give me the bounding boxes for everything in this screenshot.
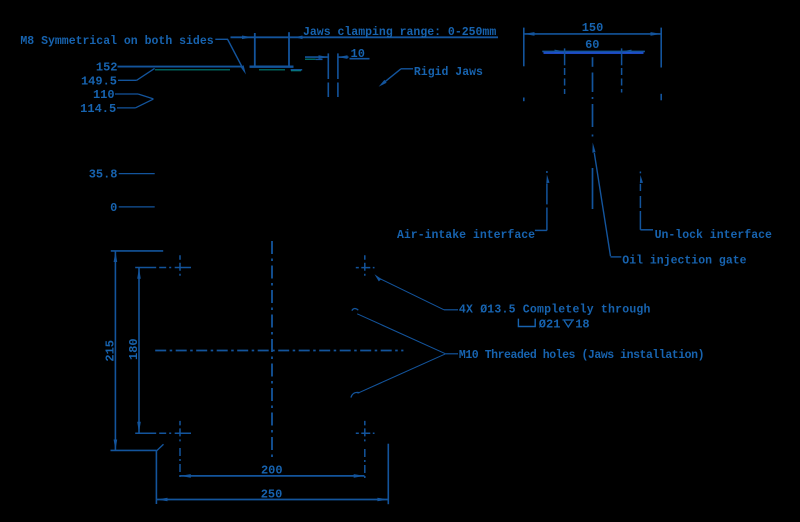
centerline right view: [592, 57, 594, 209]
dim 150 extension left: [523, 28, 525, 102]
dim 215 extension top: [111, 250, 163, 252]
svg-text:Ø21: Ø21: [539, 317, 561, 331]
label 110: [93, 88, 153, 102]
leader M8 note: [215, 39, 246, 74]
label 152: [96, 61, 118, 75]
hole centre cross top-right: [356, 255, 375, 279]
svg-text:114.5: 114.5: [80, 102, 116, 116]
svg-text:149.5: 149.5: [81, 74, 117, 88]
jaw plate right edge: [337, 53, 339, 97]
label 35.8: [89, 168, 155, 182]
dim 180 extension top: [135, 267, 191, 269]
leader oil injection: [592, 143, 621, 257]
dim 200: [180, 464, 365, 478]
hole centre cross top-left: [179, 255, 181, 279]
svg-text:215: 215: [104, 340, 118, 362]
dim 150 extension right: [660, 28, 662, 101]
svg-text:200: 200: [261, 464, 283, 478]
svg-text:35.8: 35.8: [89, 168, 118, 182]
leader M10 holes: [351, 308, 458, 397]
counterbore symbol: [518, 319, 535, 327]
text un-lock interface: [655, 229, 772, 242]
svg-text:M8 Symmetrical on both sides: M8 Symmetrical on both sides: [20, 35, 213, 48]
text jaws clamping range: [303, 26, 496, 39]
dim 60 extension right: [621, 48, 623, 92]
label 0: [110, 201, 155, 215]
label 114.5: [80, 99, 153, 116]
svg-text:Jaws clamping range: 0-250mm: Jaws clamping range: 0-250mm: [303, 26, 496, 39]
edge line level 149.5 teal: [155, 69, 230, 71]
svg-text:180: 180: [127, 338, 141, 360]
teal segment at dim 10: [305, 58, 323, 60]
text oil injection gate: [622, 255, 746, 268]
svg-text:Oil injection gate: Oil injection gate: [622, 255, 746, 268]
note M8 symmetrical: [20, 35, 213, 48]
svg-text:Un-lock interface: Un-lock interface: [655, 229, 772, 242]
leader 4X holes: [375, 274, 459, 310]
dim 10: [305, 47, 370, 61]
svg-text:4X Ø13.5 Completely through: 4X Ø13.5 Completely through: [459, 303, 651, 316]
edge segment right of slot: [291, 70, 303, 71]
dim 215 extension bottom: [111, 449, 157, 451]
jaw slot left wall: [254, 33, 256, 66]
leader un-lock: [640, 172, 653, 230]
centerline vertical lower view: [271, 241, 273, 457]
svg-text:M10 Threaded holes (Jaws insta: M10 Threaded holes (Jaws installation): [459, 349, 704, 362]
jaw plate left edge: [327, 53, 329, 97]
dim 60: [542, 38, 645, 53]
dim 250 extension right: [387, 444, 389, 505]
teal edge segment inside slot: [259, 69, 285, 71]
svg-text:Rigid Jaws: Rigid Jaws: [414, 66, 483, 79]
text rigid jaws: [414, 66, 483, 79]
svg-text:150: 150: [582, 21, 604, 35]
leader rigid jaws: [379, 69, 413, 87]
hole centre cross bottom-left: [179, 421, 181, 445]
label 149.5: [81, 68, 155, 88]
text air-intake interface: [397, 229, 535, 242]
dim 250 extension left: [156, 444, 163, 504]
leader air-intake: [535, 171, 550, 230]
edge line bright under 60: [544, 52, 644, 54]
jaw slot right wall: [288, 32, 290, 66]
edge line level 152: [118, 66, 243, 68]
dim 150: [524, 21, 661, 36]
jaw slot bottom edge: [250, 66, 294, 68]
dim 200 extension left: [179, 448, 181, 479]
svg-text:Air-intake interface: Air-intake interface: [397, 229, 535, 242]
svg-text:60: 60: [585, 38, 599, 52]
centerline horizontal lower view: [155, 350, 403, 352]
text counterbore depth: [539, 317, 590, 331]
text 4X holes note: [459, 303, 651, 316]
svg-text:10: 10: [351, 47, 365, 61]
text M10 holes note: [459, 349, 704, 362]
svg-text:18: 18: [575, 317, 589, 331]
hole centre cross bottom-right: [356, 421, 375, 445]
svg-text:0: 0: [110, 201, 117, 215]
svg-text:250: 250: [261, 487, 283, 501]
dim jaws-clamping-range line: [231, 36, 499, 40]
svg-text:110: 110: [93, 88, 115, 102]
dim 200 extension right: [364, 449, 366, 479]
dim 60 extension left: [564, 48, 566, 94]
dim 250: [157, 487, 389, 501]
svg-text:152: 152: [96, 61, 118, 75]
dim 180 extension bottom: [135, 432, 191, 434]
dim 215: [104, 251, 118, 450]
dim 180: [127, 268, 141, 433]
